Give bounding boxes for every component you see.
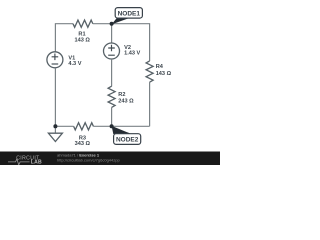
resistor R3 <box>74 123 94 147</box>
node NODE2 <box>114 134 141 145</box>
wire top-left horizontal <box>55 23 73 25</box>
wire middle branch top (junction to V2) <box>111 24 113 43</box>
wire bottom-right horizontal (corner to node2 junction) <box>112 125 150 127</box>
junction dot node2 <box>110 124 114 128</box>
svg-text:R4: R4 <box>156 64 164 70</box>
watermark logo wave + LAB <box>8 159 30 165</box>
voltage source V1 <box>47 52 82 68</box>
svg-text:NODE1: NODE1 <box>118 10 141 17</box>
node NODE1 pointer <box>112 18 131 25</box>
wire R1 to node1 junction <box>93 23 112 25</box>
svg-text:NODE2: NODE2 <box>116 137 139 144</box>
wire R4 to bottom-right corner <box>149 82 151 126</box>
resistor R4 <box>146 61 171 82</box>
svg-text:http://circuitlab.com/c/7g6c0g: http://circuitlab.com/c/7g6c0g44zpp <box>57 158 120 163</box>
wire node2 junction to R3 <box>93 125 111 127</box>
svg-text:R2: R2 <box>118 92 125 98</box>
ground <box>48 126 62 141</box>
svg-text:143 Ω: 143 Ω <box>156 71 172 77</box>
resistor R1 <box>73 20 93 43</box>
svg-text:LAB: LAB <box>31 160 42 165</box>
node NODE1 <box>115 8 142 19</box>
watermark footer bar <box>0 152 220 166</box>
node NODE2 pointer <box>112 126 131 134</box>
wire right branch vertical top (corner to R4) <box>149 23 151 61</box>
wire V1 to ground junction <box>54 68 56 127</box>
svg-text:1.43 V: 1.43 V <box>124 51 140 57</box>
svg-text:343 Ω: 343 Ω <box>75 141 91 147</box>
svg-text:143 Ω: 143 Ω <box>75 37 91 43</box>
wire left branch vertical (corner to V1) <box>54 23 56 52</box>
junction dot ground <box>53 124 57 128</box>
voltage source V2 <box>104 43 141 59</box>
wire R2 to node2 junction <box>111 107 113 126</box>
svg-text:243 Ω: 243 Ω <box>118 98 134 104</box>
svg-text:4.3 V: 4.3 V <box>68 61 81 67</box>
resistor R2 <box>108 86 134 107</box>
junction dot node1 <box>110 22 114 26</box>
wire R3 to ground junction <box>55 125 73 127</box>
wire V2 to R2 <box>111 59 113 86</box>
wire node1 junction to top-right corner <box>112 23 150 25</box>
